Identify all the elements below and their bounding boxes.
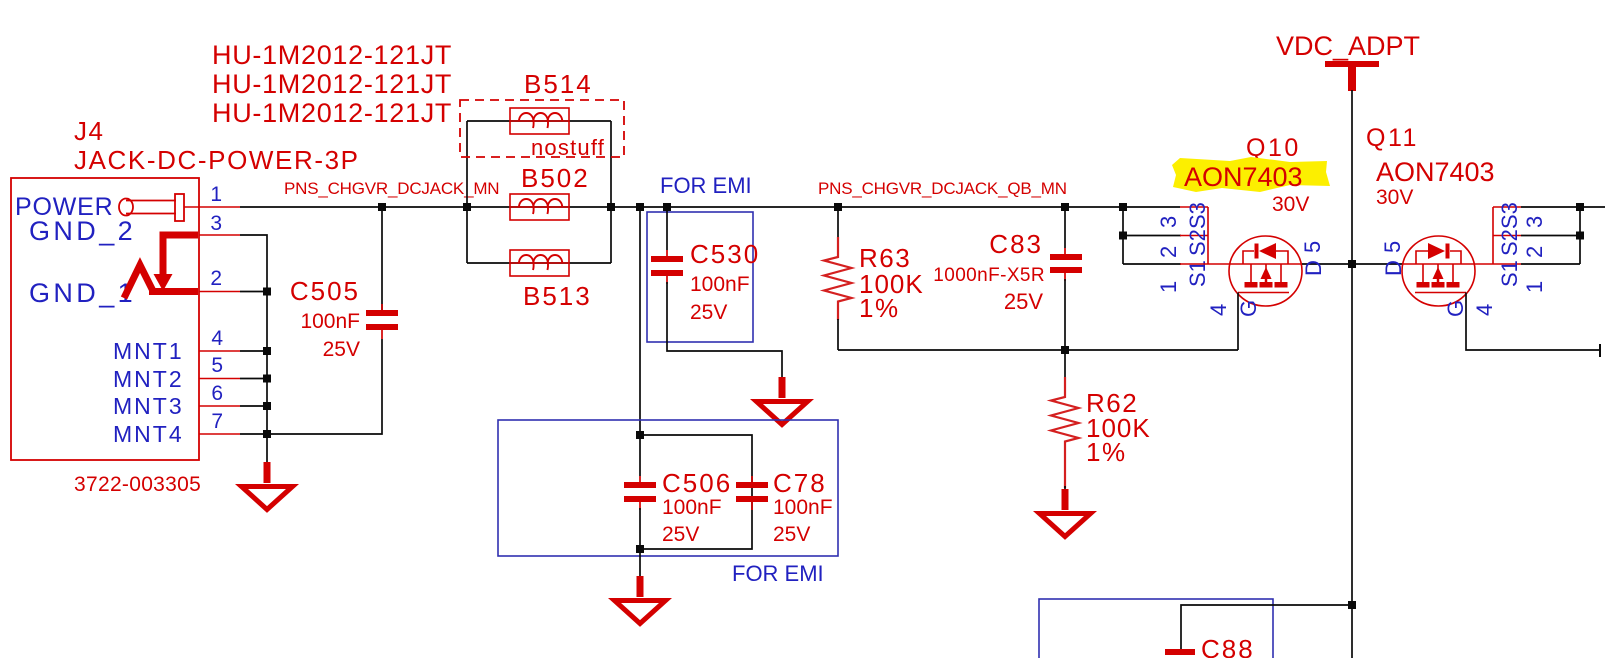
Q10 rail — [1180, 263, 1302, 265]
svg-text:30V: 30V — [1272, 193, 1309, 216]
wire B513 row — [467, 262, 611, 264]
svg-text:G: G — [1443, 300, 1468, 317]
svg-text:GND_1: GND_1 — [29, 278, 136, 308]
wire mnt4 stub — [240, 433, 268, 435]
svg-text:D: D — [1301, 260, 1326, 276]
ground C530 — [757, 377, 808, 425]
svg-text:25V: 25V — [773, 523, 810, 546]
wire Q11 S2 stub — [1521, 235, 1580, 237]
svg-text:S3: S3 — [1497, 202, 1522, 229]
svg-text:3: 3 — [210, 212, 222, 235]
svg-text:25V: 25V — [662, 523, 699, 546]
svg-text:FOR EMI: FOR EMI — [660, 173, 752, 198]
Q10 body diode — [1255, 244, 1259, 259]
junction C530 — [663, 203, 671, 211]
wire Q10 S1 stub — [1123, 263, 1181, 265]
Q11 body arrow — [1433, 267, 1444, 279]
jack ground contact thick path — [163, 235, 198, 274]
wire long vertical to lower EMI — [639, 207, 641, 435]
jack tip plate — [175, 194, 184, 221]
svg-text:B514: B514 — [524, 69, 593, 99]
wire Q10 S bus vertical — [1122, 207, 1124, 264]
svg-text:B502: B502 — [521, 163, 590, 193]
junction bead right — [607, 203, 615, 211]
svg-text:3: 3 — [1156, 216, 1181, 228]
svg-text:7: 7 — [211, 410, 223, 433]
jack barrel lines — [126, 200, 176, 202]
wire B514 row — [467, 120, 611, 122]
highlight yellow — [1172, 157, 1330, 192]
Q11 pin comb — [1492, 207, 1494, 264]
junction mnt2 — [263, 375, 271, 383]
svg-text:100nF: 100nF — [662, 496, 722, 519]
svg-text:C506: C506 — [662, 468, 732, 498]
inductor B514 — [510, 108, 569, 134]
jack spring contact — [124, 265, 154, 298]
svg-text:4: 4 — [1206, 304, 1231, 316]
pin 2 lead — [199, 291, 240, 293]
wire C530 to ground — [667, 282, 782, 379]
power symbol VDC_ADPT — [1325, 61, 1379, 67]
wire C88 — [1181, 605, 1350, 650]
svg-text:4: 4 — [1472, 304, 1497, 316]
wire to lower ground — [639, 549, 641, 578]
capacitor C506 — [639, 435, 641, 476]
port tick gate net — [1599, 344, 1601, 357]
svg-text:PNS_CHGVR_DCJACK_QB_MN: PNS_CHGVR_DCJACK_QB_MN — [818, 179, 1067, 198]
junction C83 top — [1061, 203, 1069, 211]
junction Q10 S2 — [1119, 232, 1127, 240]
wire C78 loop — [640, 435, 752, 549]
wire C505 bottom to bus — [267, 339, 382, 434]
svg-text:S3: S3 — [1185, 202, 1210, 229]
Q11 gate bar — [1415, 292, 1466, 294]
svg-text:5: 5 — [1300, 241, 1325, 253]
pin 1 lead — [184, 206, 240, 208]
svg-text:1: 1 — [1522, 281, 1547, 293]
wire pin3 to gnd bus — [240, 235, 267, 463]
capacitor C505 — [381, 207, 383, 311]
svg-text:AON7403: AON7403 — [1376, 157, 1495, 187]
pin 4 lead — [199, 350, 240, 352]
svg-text:1%: 1% — [859, 293, 900, 323]
pin 3 lead — [199, 234, 240, 236]
inductor B513 — [510, 250, 569, 276]
capacitor C530 — [666, 207, 668, 250]
svg-text:GND_2: GND_2 — [29, 216, 136, 246]
wire VDC vertical — [1351, 90, 1353, 658]
wire Q11 drain — [1352, 263, 1403, 265]
svg-text:2: 2 — [1156, 246, 1181, 258]
Q11 body diode — [1446, 244, 1450, 259]
svg-text:VDC_ADPT: VDC_ADPT — [1276, 31, 1420, 61]
C88 box — [1039, 599, 1273, 658]
connector J4 body — [11, 178, 199, 460]
wire pin2 stub — [240, 291, 268, 293]
junction VDC drain — [1348, 260, 1356, 268]
svg-text:MNT1: MNT1 — [113, 338, 184, 364]
junction mnt3 — [263, 402, 271, 410]
junction bead left — [463, 203, 471, 211]
svg-text:3: 3 — [1522, 216, 1547, 228]
svg-text:J4: J4 — [74, 116, 104, 146]
junction loop bottom — [636, 545, 644, 553]
svg-text:25V: 25V — [1004, 289, 1043, 314]
svg-text:1%: 1% — [1086, 437, 1127, 467]
junction Q11 S3 — [1576, 203, 1584, 211]
nostuff dashed box — [460, 100, 624, 157]
wire bead left vertical — [466, 121, 468, 263]
svg-text:2: 2 — [1522, 246, 1547, 258]
resistor R62 — [1064, 350, 1066, 378]
transistor Q11 body — [1402, 236, 1475, 306]
junction bottom rail — [1061, 346, 1069, 354]
junction mnt1 — [263, 347, 271, 355]
svg-text:1: 1 — [1156, 281, 1181, 293]
ground C506 — [615, 576, 666, 624]
svg-text:C88: C88 — [1201, 634, 1255, 658]
svg-text:C78: C78 — [773, 468, 827, 498]
svg-text:25V: 25V — [690, 301, 727, 324]
FOR EMI box C530 — [647, 212, 753, 342]
svg-text:5: 5 — [211, 354, 223, 377]
wire Q10 S2 stub — [1123, 235, 1181, 237]
capacitor C88 — [1165, 649, 1195, 655]
svg-text:MNT3: MNT3 — [113, 393, 184, 419]
capacitor C83 — [1064, 207, 1066, 248]
svg-text:nostuff: nostuff — [531, 135, 605, 160]
wire Q11 S3 stub — [1521, 206, 1580, 208]
Q11 source fingers — [1422, 264, 1424, 283]
svg-text:Q11: Q11 — [1366, 124, 1419, 152]
wire main net continues right — [1580, 206, 1605, 208]
svg-text:1: 1 — [210, 183, 222, 206]
svg-text:JACK-DC-POWER-3P: JACK-DC-POWER-3P — [74, 145, 360, 175]
inductor B502 — [510, 194, 569, 220]
wire Q11 S1 stub — [1521, 263, 1580, 265]
junction R63 — [834, 203, 842, 211]
resistor R63 — [837, 207, 839, 238]
wire main net — [240, 206, 1180, 208]
svg-text:MNT4: MNT4 — [113, 421, 184, 447]
junction VDC C88 — [1348, 601, 1356, 609]
capacitor C78 — [751, 476, 753, 483]
Q11 rail — [1403, 263, 1493, 265]
svg-text:2: 2 — [210, 267, 222, 290]
svg-text:HU-1M2012-121JT: HU-1M2012-121JT — [212, 98, 452, 128]
junction C505 main — [378, 203, 386, 211]
junction Q10 S3 — [1119, 203, 1127, 211]
junction pin2 — [263, 288, 271, 296]
svg-text:4: 4 — [211, 327, 223, 350]
wire Q10 gate — [1237, 293, 1239, 351]
jack barrel ellipse — [119, 199, 133, 216]
svg-text:AON7403: AON7403 — [1184, 162, 1303, 192]
wire Q11 S bus vertical — [1579, 207, 1581, 264]
svg-text:S1: S1 — [1497, 260, 1522, 287]
Q10 pin comb — [1180, 206, 1208, 208]
svg-text:1000nF-X5R: 1000nF-X5R — [933, 265, 1045, 286]
pin 7 lead — [199, 433, 240, 435]
svg-text:5: 5 — [1380, 241, 1405, 253]
wire bottom rail — [838, 349, 1238, 351]
svg-text:S2: S2 — [1497, 229, 1522, 256]
svg-text:C83: C83 — [989, 229, 1043, 259]
svg-text:100nF: 100nF — [300, 310, 360, 333]
wire mnt1 stub — [240, 350, 268, 352]
svg-text:25V: 25V — [323, 338, 360, 361]
junction Q11 S2 — [1576, 232, 1584, 240]
junction mnt4 — [263, 430, 271, 438]
svg-text:FOR EMI: FOR EMI — [732, 561, 824, 586]
svg-text:C505: C505 — [290, 276, 360, 306]
svg-text:C530: C530 — [690, 239, 760, 269]
FOR EMI box lower — [498, 420, 838, 556]
wire mnt2 stub — [240, 378, 268, 380]
svg-text:3722-003305: 3722-003305 — [74, 473, 201, 496]
svg-text:HU-1M2012-121JT: HU-1M2012-121JT — [212, 40, 452, 70]
svg-text:D: D — [1381, 260, 1406, 276]
svg-text:B513: B513 — [523, 281, 592, 311]
wire bead right vertical — [610, 121, 612, 263]
wire mnt3 stub — [240, 405, 268, 407]
pin 5 lead — [199, 378, 240, 380]
Q10 body arrow — [1261, 267, 1272, 279]
svg-text:6: 6 — [211, 382, 223, 405]
svg-text:HU-1M2012-121JT: HU-1M2012-121JT — [212, 69, 452, 99]
svg-text:100nF: 100nF — [773, 496, 833, 519]
transistor Q10 body — [1229, 236, 1302, 306]
ground R62 — [1040, 489, 1091, 537]
svg-text:G: G — [1236, 300, 1261, 317]
Q10 gate bar — [1238, 292, 1289, 294]
svg-text:S2: S2 — [1185, 229, 1210, 256]
junction loop top — [636, 431, 644, 439]
svg-text:30V: 30V — [1376, 186, 1413, 209]
wire Q10 drain — [1302, 263, 1352, 265]
ground J4 — [242, 462, 293, 510]
pin 6 lead — [199, 405, 240, 407]
svg-text:100nF: 100nF — [690, 273, 750, 296]
junction long vertical — [636, 203, 644, 211]
svg-text:MNT2: MNT2 — [113, 366, 184, 392]
wire Q11 gate — [1466, 293, 1600, 351]
Q10 source fingers — [1250, 264, 1252, 283]
